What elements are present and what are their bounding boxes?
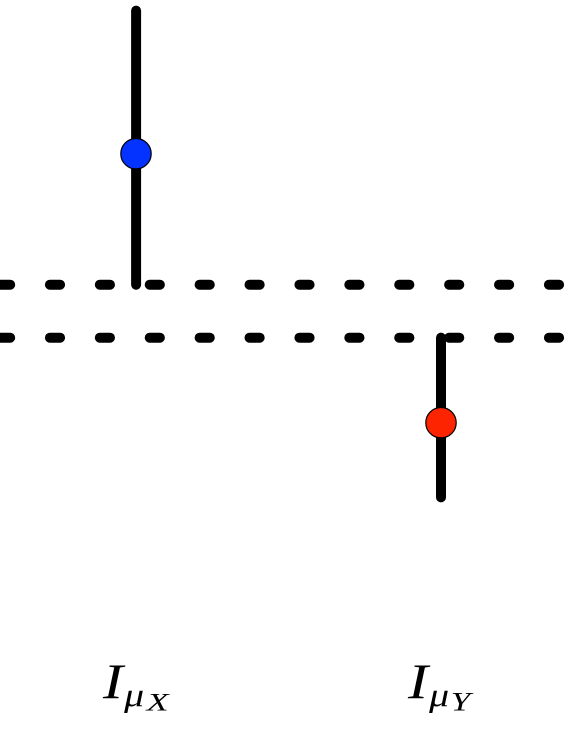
wire interval line for I_muY	[436, 338, 446, 498]
svg-text:μ: μ	[428, 678, 449, 714]
svg-text:X: X	[145, 688, 170, 717]
svg-text:I: I	[102, 654, 126, 709]
svg-text:μ: μ	[123, 678, 144, 714]
wire upper dashed horizontal line	[0, 280, 575, 290]
node red dot (mean of Y)	[426, 408, 456, 438]
wire interval line for I_muX	[131, 11, 141, 285]
label I_muY	[407, 654, 474, 717]
node blue dot (mean of X)	[121, 139, 151, 169]
label I_muX	[102, 654, 171, 717]
wire lower dashed horizontal line	[0, 333, 575, 343]
svg-text:I: I	[407, 654, 431, 709]
svg-text:Y: Y	[451, 688, 474, 717]
